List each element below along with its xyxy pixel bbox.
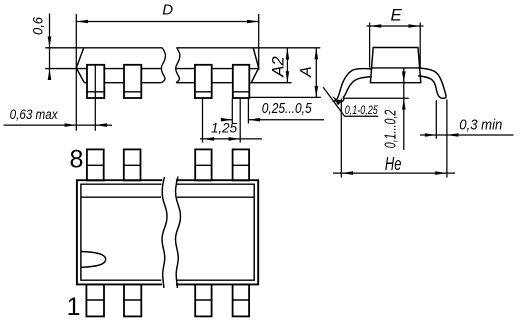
seam pin4 to right tip — [249, 68, 258, 70]
A2 arrow bottom — [286, 71, 290, 82]
svg-text:0,6: 0,6 — [31, 17, 46, 35]
body trapezoid — [370, 48, 420, 83]
0,25 arrow left — [221, 118, 232, 122]
outer rect left segment — [77, 180, 162, 284]
A2 dimension line — [286, 48, 288, 83]
break wavy line right — [176, 48, 180, 83]
seam pin2 to break — [141, 68, 161, 70]
A2 arrow top — [286, 48, 290, 59]
pin 7 top view — [124, 149, 141, 180]
svg-text:1,25: 1,25 — [211, 120, 237, 136]
body top edge left segment (also 0,6 extension) — [45, 47, 162, 49]
0,3 dimension line — [420, 134, 514, 136]
D arrow right — [247, 20, 259, 24]
0,63 dimension line — [4, 124, 113, 126]
break wavy left — [162, 177, 167, 288]
svg-text:He: He — [385, 154, 402, 174]
A arrow top — [315, 48, 319, 59]
body seam line left segment (also 0,6 ext) — [45, 68, 87, 70]
arrow down to body bottom — [402, 71, 406, 82]
svg-text:0,3 min: 0,3 min — [459, 118, 502, 134]
right lead upper curve — [418, 68, 446, 98]
A arrow bottom — [315, 86, 319, 97]
break wavy line left — [161, 48, 165, 83]
E extension left — [369, 23, 371, 68]
leader line — [323, 87, 378, 116]
arrow up to seating plane — [402, 98, 406, 109]
seam pin3 to pin4 — [212, 68, 233, 70]
0,3 arrow right — [447, 133, 459, 137]
0,25 arrow right — [248, 118, 260, 122]
E dimension line — [367, 25, 424, 27]
body top edge right segment + A2/A top extension — [176, 47, 320, 49]
outer rect right segment — [176, 180, 258, 284]
svg-text:0,25...0,5: 0,25...0,5 — [262, 100, 313, 117]
E arrow left — [370, 24, 382, 28]
svg-text:0,63 max: 0,63 max — [10, 107, 59, 122]
1,25 arrow left — [203, 137, 215, 141]
ext pin4 left edge — [231, 99, 233, 124]
0,6 arrow top — [48, 37, 52, 48]
A bottom extension line — [248, 96, 321, 98]
svg-text:E: E — [391, 6, 403, 25]
He arrow left — [341, 171, 353, 175]
seam between pin1 and pin2 — [104, 68, 124, 70]
left chamfer — [76, 48, 84, 83]
0,63 arrow left — [65, 123, 77, 127]
body bottom edge segments — [84, 82, 233, 84]
svg-text:0,1...0,2: 0,1...0,2 — [383, 110, 400, 149]
pin 4 side view — [233, 65, 250, 98]
inner rect left segment — [81, 184, 162, 280]
seating plane line — [343, 97, 409, 99]
E extension right — [419, 23, 421, 68]
D extension line left — [75, 14, 77, 131]
left lead lower curve — [343, 77, 372, 98]
E arrow right — [409, 24, 421, 28]
1,25 dimension line — [200, 138, 262, 140]
A dimension line — [315, 48, 317, 98]
1,25 extension pin4 center — [239, 99, 241, 143]
break wavy right — [176, 177, 181, 289]
0,63 extension through pin1 — [94, 65, 96, 131]
0,3 arrow left — [425, 133, 436, 137]
seam break to pin3 — [176, 68, 195, 70]
right lead foot arc — [438, 96, 445, 99]
svg-text:8: 8 — [70, 146, 84, 174]
right chamfer — [251, 48, 259, 83]
pin 8 top view — [87, 149, 104, 180]
right lead lower curve — [418, 76, 438, 96]
D dimension line — [76, 21, 258, 23]
pin 2 side view — [124, 65, 141, 98]
pin 3 bottom view — [195, 284, 211, 316]
ext foot inner — [435, 100, 437, 139]
pin 5 top view — [233, 149, 250, 180]
0,63 arrow right — [95, 123, 107, 127]
pin 1 side view — [87, 65, 104, 98]
He dimension line — [333, 172, 455, 174]
D arrow left — [76, 20, 88, 24]
inner rect right segment — [177, 184, 255, 280]
He arrow right — [435, 171, 447, 175]
molding line — [81, 196, 254, 198]
svg-text:A: A — [298, 66, 315, 78]
left lead upper curve — [333, 69, 372, 102]
svg-text:A2: A2 — [268, 56, 287, 78]
D extension line right — [258, 14, 260, 70]
left lead foot arc — [336, 97, 344, 101]
pin 3 side view — [195, 65, 212, 98]
0,6 dimension line — [49, 14, 51, 80]
pin 4 bottom view — [233, 284, 250, 316]
0,1..0,2 dimension line — [403, 68, 405, 150]
1,25 extension pin3 center — [202, 99, 204, 143]
pin 2 bottom view — [124, 284, 141, 316]
pin 6 top view — [195, 149, 211, 180]
0,6 arrow bottom — [48, 69, 52, 80]
body seam line — [371, 67, 419, 69]
ext foot outer (shared with He) — [446, 100, 448, 178]
svg-text:1: 1 — [67, 293, 81, 321]
svg-text:D: D — [162, 2, 173, 19]
1,25 arrow right — [229, 137, 241, 141]
pin 1 marker semicircle — [81, 252, 106, 268]
leader arrowhead — [332, 96, 341, 105]
ext pin4 right edge — [247, 99, 249, 124]
0,25 dimension line tails — [221, 119, 324, 121]
He extension left — [340, 99, 342, 178]
svg-text:0,1-0,25: 0,1-0,25 — [345, 105, 378, 117]
body bottom right + A2 bottom extension — [249, 82, 291, 84]
pin 1 bottom view — [86, 284, 104, 316]
